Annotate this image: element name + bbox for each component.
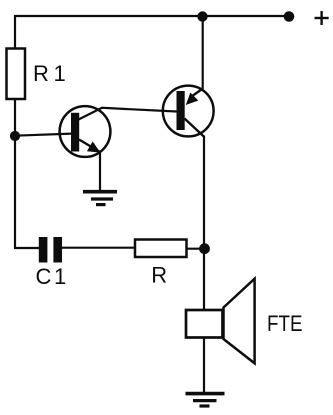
wire R to junction B bbox=[187, 248, 205, 250]
wire top rail bbox=[15, 15, 289, 17]
ground bar short bbox=[200, 404, 210, 407]
capacitor C1 bbox=[39, 237, 62, 263]
wire left drop to R1 bbox=[14, 15, 16, 48]
wire bottom-left to C1 bbox=[14, 247, 40, 249]
Q1 emitter lead bbox=[79, 140, 100, 153]
terminal dot + bbox=[284, 11, 295, 22]
wire top junction down to Q2 emitter bbox=[202, 16, 204, 89]
plus symbol bbox=[315, 11, 329, 25]
Q2 base bar bbox=[177, 91, 185, 130]
wire base Q1 bbox=[15, 134, 72, 136]
wire C1 to R bbox=[61, 247, 135, 249]
speaker FTE bbox=[186, 279, 255, 364]
Q1 emitter arrow bbox=[88, 143, 99, 152]
node B junction dot right bbox=[199, 243, 210, 254]
wire Q2 collector down to speaker bbox=[203, 136, 205, 310]
ground bar short bbox=[96, 203, 106, 206]
ground (speaker) bbox=[186, 394, 225, 406]
C1 left plate bbox=[39, 237, 48, 263]
C1 right plate bbox=[53, 237, 62, 263]
ground bar middle bbox=[91, 197, 113, 200]
resistor R bbox=[135, 240, 187, 258]
svg-text:R: R bbox=[151, 263, 167, 288]
svg-text:FTE: FTE bbox=[267, 311, 303, 336]
ground bar middle bbox=[193, 399, 217, 402]
svg-text:C1: C1 bbox=[36, 264, 67, 289]
transistor Q2 bbox=[163, 86, 214, 137]
ground (Q1 emitter) bbox=[83, 192, 117, 205]
Q2 body circle bbox=[163, 86, 214, 137]
speaker magnet box bbox=[186, 310, 223, 338]
transistor Q1 bbox=[60, 106, 111, 157]
wire R1 bottom to bottom-left corner bbox=[14, 100, 16, 249]
wire Q1 collector to Q2 base bbox=[79, 108, 177, 120]
Q1 base bar bbox=[71, 113, 79, 152]
Q2 emitter arrow bbox=[187, 94, 197, 104]
ground bar long bbox=[83, 190, 117, 194]
Q2 collector lead bbox=[185, 119, 204, 137]
ground bar long bbox=[186, 392, 225, 396]
Q1 body circle bbox=[60, 106, 111, 157]
Q2 emitter lead bbox=[192, 89, 203, 97]
wire Q1 emitter to ground bbox=[99, 152, 101, 192]
node A junction dot left bbox=[10, 131, 20, 141]
node C junction dot top bbox=[197, 11, 207, 21]
svg-text:R1: R1 bbox=[33, 61, 66, 86]
resistor R1 bbox=[7, 49, 26, 100]
speaker cone bbox=[224, 279, 255, 364]
wire speaker to ground bbox=[203, 338, 205, 393]
